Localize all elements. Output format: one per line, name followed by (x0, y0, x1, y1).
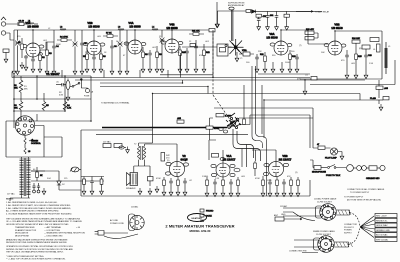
ground (169, 189, 173, 196)
resistor R47 (206, 177, 209, 190)
coil L1 (28, 21, 38, 25)
svg-text:CONNECTOR: CONNECTOR (344, 224, 357, 226)
svg-text:V4A: V4A (128, 21, 133, 25)
wire bus y93.5 (153, 94, 361, 101)
svg-text:— ANT TERMINAL: — ANT TERMINAL (44, 226, 62, 229)
transformer T1 primary (20, 158, 24, 196)
wire osc top rail (218, 10, 247, 12)
wire antenna drop (10, 30, 14, 68)
resistor R48 (222, 178, 225, 191)
capacitor C19 feedthrough (229, 7, 234, 10)
transformer T1 secondary (27, 158, 31, 196)
ground (110, 68, 114, 75)
ground arrow (285, 24, 289, 31)
resistor R22 (289, 50, 297, 66)
ground (52, 68, 56, 75)
wire RF bottom rail (12, 77, 310, 79)
resistor R61 (100, 179, 104, 195)
svg-text:1.5K: 1.5K (369, 63, 374, 65)
node 115VAC arrows (280, 205, 288, 216)
svg-text:117 VAC: 117 VAC (7, 193, 15, 196)
svg-text:100K: 100K (56, 44, 61, 46)
capacitor C4 (52, 40, 59, 68)
ground (162, 189, 166, 196)
wire V4B output to crystal (182, 46, 232, 48)
svg-text:RECEIVE POSITIONS GIVEN IN PAR: RECEIVE POSITIONS GIVEN IN PARENTHESIS W… (6, 241, 67, 244)
crystal Y1 (217, 44, 228, 56)
resistor R3 (46, 42, 53, 68)
resistor R52 (276, 177, 279, 190)
svg-text:— 6.3V SETTING: — 6.3V SETTING (44, 230, 60, 232)
microphone jack J2 (312, 166, 327, 174)
svg-text:FILAMENT SELECTOR: FILAMENT SELECTOR (15, 229, 37, 232)
svg-text:4.7K: 4.7K (67, 107, 72, 109)
ground (45, 68, 49, 75)
svg-text:1/2 6EA8: 1/2 6EA8 (331, 26, 343, 30)
resistor R43 (163, 177, 166, 189)
fuse holder oval (70, 167, 81, 172)
capacitor C25 (295, 54, 299, 66)
resistor R44 (177, 177, 180, 189)
svg-text:GROUND WITH NO SIGNAL INPUT AN: GROUND WITH NO SIGNAL INPUT AND LINE VOL… (6, 223, 69, 226)
node connecting label (289, 251, 307, 253)
capacitor C49 (282, 179, 286, 190)
ground (213, 190, 217, 197)
capacitor C2 (24, 55, 28, 64)
ground (345, 72, 349, 79)
svg-text:1/2 6BN8: 1/2 6BN8 (166, 26, 178, 30)
svg-text:RED +250V: RED +250V (376, 216, 387, 218)
capacitor C26 (305, 33, 318, 40)
ground (202, 66, 206, 73)
wire V1B plate (93, 30, 95, 41)
resistor R49 (237, 177, 240, 190)
ground (73, 68, 77, 75)
ground (85, 66, 89, 73)
wire ps box (6, 137, 62, 157)
oval pins V4B (161, 41, 183, 45)
svg-text:TO POWER SUPPLY: TO POWER SUPPLY (344, 197, 364, 199)
wire ac loop (104, 234, 138, 238)
ground (176, 189, 180, 196)
resistor R27 (377, 44, 381, 52)
capacitor C13 (185, 48, 189, 66)
svg-text:GRN 6.3VAC: GRN 6.3VAC (376, 224, 388, 227)
node junction dots (13, 75, 92, 122)
oval pins V3A (270, 43, 292, 47)
svg-text:OF +/- 20% AND WERE TAKEN WITH: OF +/- 20% AND WERE TAKEN WITH A VTVM AN… (6, 220, 82, 223)
capacitor C28 (364, 48, 372, 72)
capacitor C30 (376, 80, 389, 98)
svg-text:4. VOLTAGE READINGS TAKEN WIT: 4. VOLTAGE READINGS TAKEN WITH VTVM FROM… (6, 212, 72, 215)
svg-text:CONTROL: CONTROL (31, 143, 42, 145)
svg-text:PHONO: PHONO (206, 211, 214, 213)
tube V3B 1/2 6EA8 (331, 23, 343, 30)
ground under spider (235, 52, 239, 62)
ground (118, 68, 122, 75)
resistor R24 (352, 38, 360, 50)
value labels scatter (17, 28, 391, 209)
ground (4, 56, 8, 63)
ground arrow extra2 (280, 62, 284, 73)
tube V1B 1/2 6EA8 (87, 21, 100, 28)
resistor R21 (260, 52, 266, 66)
capacitor C29 (370, 38, 379, 42)
resistor R21a (284, 11, 289, 23)
svg-text:V1 12AX7: V1 12AX7 (46, 72, 60, 76)
wire nested corner 2 (237, 131, 254, 158)
node 117VAC lead (7, 193, 15, 196)
resistor R4 (57, 37, 72, 42)
ground (295, 66, 299, 73)
ground (263, 66, 267, 73)
ground (288, 66, 292, 73)
resistor R54 (297, 177, 300, 190)
wire grid box (14, 76, 91, 121)
svg-text:(1): (1) (295, 172, 298, 174)
node 115VAC cable label (314, 198, 337, 204)
resistor R20 (256, 14, 267, 18)
svg-text:NOTES:: NOTES: (6, 199, 14, 201)
svg-text:470K: 470K (214, 128, 219, 130)
svg-text:MICROPHONE: MICROPHONE (15, 235, 29, 237)
node fan label 5 (375, 233, 397, 237)
ground (379, 100, 383, 111)
svg-text:V2: V2 (182, 154, 186, 158)
svg-text:1 MEG: 1 MEG (202, 176, 209, 178)
oval pin labels V2 (165, 162, 188, 175)
AC socket SO1 (129, 214, 145, 231)
notes block (6, 199, 85, 261)
svg-text:** +/- AND TOP OF DEFLECTION P: ** +/- AND TOP OF DEFLECTION POWER SUPPL… (6, 258, 66, 261)
svg-text:V3A: V3A (269, 32, 274, 36)
wire v1a grid drop (242, 145, 247, 168)
connector P3 (357, 166, 369, 171)
relay RL1 knot (226, 113, 241, 129)
wire top rail (14, 29, 213, 31)
resistor R19 (246, 10, 251, 13)
resistor R41 (31, 167, 45, 181)
node fan label 1 (375, 214, 397, 218)
svg-text:R11 47K: R11 47K (192, 31, 200, 33)
svg-text:11-PIN SOCKET: 11-PIN SOCKET (317, 202, 333, 204)
svg-text:CONNECTING PIN: CONNECTING PIN (289, 251, 307, 253)
node splice text (344, 224, 357, 234)
tube V4B 1/2 6BN8 (166, 23, 178, 30)
wire V3A plate (281, 30, 308, 41)
svg-text:SPARE POWER CABLE: SPARE POWER CABLE (313, 230, 336, 233)
svg-text:SPEAKER: SPEAKER (126, 187, 136, 190)
svg-text:TO POWER SUPPLY: TO POWER SUPPLY (350, 192, 370, 194)
wire v3 coupling (308, 30, 328, 44)
trimmer C5 (73, 30, 78, 68)
svg-text:ALL OTHERS IN MMF UNLESS OTHER: ALL OTHERS IN MMF UNLESS OTHERWISE SPECI… (6, 210, 59, 213)
wire left big rect (152, 94, 154, 141)
wire audio box top (81, 129, 153, 131)
node junction dots on buses (32, 29, 335, 100)
svg-text:115VAC: 115VAC (131, 206, 139, 209)
node fan label 2 (375, 218, 397, 222)
resistor R42 (161, 153, 171, 162)
wire dashed cable merge (349, 213, 361, 245)
ground (289, 190, 293, 197)
trimmer C12 (160, 30, 165, 66)
wire V4B cathode down (180, 53, 182, 78)
tube V3A 1/2 6EA8 (266, 32, 278, 39)
wire nested corner 4 (256, 130, 267, 196)
ground (125, 68, 129, 75)
capacitor C51 (90, 179, 94, 195)
oval pins V1B (83, 42, 105, 46)
resistor R33 68K (14, 99, 23, 121)
svg-text:R7 1K: R7 1K (106, 33, 112, 35)
ground arrow (257, 24, 261, 31)
resistor R5 (83, 48, 88, 66)
ground row stage1 (20, 62, 24, 69)
logo Heathkit (188, 214, 207, 222)
capacitor C31 line filter (305, 75, 317, 80)
ground (16, 68, 20, 75)
svg-text:115 VAC: 115 VAC (103, 141, 111, 144)
wire feed lines P5 (283, 208, 321, 221)
ground (99, 66, 103, 73)
svg-text:2 METER AMATEUR TRANSCEIVER: 2 METER AMATEUR TRANSCEIVER (165, 224, 234, 229)
capacitor C40 electrolytic (32, 183, 35, 193)
svg-text:115VAC POWER CABLE: 115VAC POWER CABLE (314, 198, 337, 201)
antenna J1 (1, 17, 14, 40)
wire T1 top leads (10, 157, 30, 201)
svg-text:COAX: COAX (206, 215, 212, 218)
svg-text:WHT 115VAC: WHT 115VAC (376, 239, 389, 242)
svg-text:GND: GND (281, 214, 286, 216)
fuse F1 3A (80, 79, 93, 98)
svg-text:V3B: V3B (334, 23, 339, 27)
antenna terminal A (274, 214, 302, 221)
svg-text:MICROPHONE: MICROPHONE (312, 172, 326, 174)
resistor R11 (189, 31, 204, 36)
diode D1 (252, 10, 323, 14)
node spare cable label (313, 230, 336, 236)
svg-text:115VAC: 115VAC (280, 205, 288, 208)
svg-text:RED/BLK B–: RED/BLK B– (376, 220, 388, 222)
ground T1 (138, 186, 159, 195)
resistor R57 (148, 177, 154, 187)
wire audio couplings (210, 118, 224, 163)
resistor R50 (254, 161, 257, 176)
svg-text:PLUGS TO: PLUGS TO (344, 227, 354, 229)
svg-text:POWER: POWER (344, 230, 352, 232)
capacitor C47 (229, 179, 233, 190)
ground (42, 188, 46, 195)
capacitor C50 (209, 140, 225, 161)
capacitor C43 (169, 178, 173, 189)
ground (148, 66, 152, 73)
resistor R1 (18, 38, 23, 58)
svg-text:PILOT LAMP: PILOT LAMP (325, 157, 337, 160)
svg-text:(7): (7) (299, 45, 302, 47)
wire bus y100 (264, 100, 376, 138)
svg-text:MODEL HW-30: MODEL HW-30 (190, 229, 211, 233)
ground (185, 66, 189, 73)
wire bottom audio rail (81, 180, 310, 196)
wire socket feed (6, 114, 37, 157)
resistor R46 (216, 114, 232, 118)
ground (155, 66, 159, 73)
node TO ANT RELAY (296, 10, 330, 13)
ground (296, 190, 300, 197)
svg-text:THE VOLTAGES SHOWN ON THIS SCH: THE VOLTAGES SHOWN ON THIS SCHEMATIC ARE… (6, 217, 81, 220)
coil L6 output (384, 42, 388, 74)
svg-text:1/2 6EA8: 1/2 6EA8 (88, 24, 100, 28)
crystal Y1 (239, 49, 254, 56)
wire lower rail y134.6 (96, 134, 248, 136)
ground (236, 190, 240, 197)
wire V2 plate to T2 (139, 140, 177, 161)
resistor R10 (179, 46, 187, 66)
svg-text:HEATHKIT: HEATHKIT (192, 217, 204, 220)
svg-text:(5): (5) (167, 160, 170, 162)
ground (261, 190, 265, 197)
svg-text:PUSH TO TALK: PUSH TO TALK (326, 174, 341, 177)
wire bus y80 (75, 79, 365, 81)
resistor R36 (243, 119, 246, 124)
oval pins V2A (22, 44, 44, 55)
oval cathode label (234, 168, 240, 172)
svg-text:TO ANT RELAY: TO ANT RELAY (315, 10, 330, 13)
capacitor C24 (255, 54, 259, 66)
svg-text:2. ALL RESISTORS 1/2 WATT, 10: 2. ALL RESISTORS 1/2 WATT, 10% UNLESS OT… (6, 204, 71, 207)
wire right rail (300, 31, 382, 79)
tube V2A 1/2 6BN8 (25, 21, 39, 28)
tube V4A 1/2 6BN8 (128, 21, 141, 28)
connector P5 (316, 204, 337, 221)
ground (255, 66, 259, 73)
svg-text:— MEASURED WITH NORMAL RECEPT: — MEASURED WITH NORMAL RECEPTION (44, 232, 85, 235)
svg-text:1/2 12AX7: 1/2 12AX7 (279, 157, 292, 161)
resistor R55 47 ohm (313, 144, 331, 149)
resistor R34 4.7K (63, 99, 72, 111)
svg-text:R24 10K: R24 10K (352, 38, 360, 40)
wire bus y86.5 (100, 87, 208, 94)
svg-text:6.8K: 6.8K (59, 94, 64, 96)
svg-text:* USED WITH TUNER ADJUST SETT: * USED WITH TUNER ADJUST SETTING. (6, 255, 44, 258)
capacitor C7 (92, 55, 96, 66)
speaker SP1 (126, 173, 138, 190)
resistor R53 (290, 177, 293, 190)
wire V1B leads (252, 150, 276, 161)
wire socket leads (25, 126, 44, 139)
capacitor C11 (148, 50, 152, 66)
wire V3B plate (335, 31, 382, 41)
ground (92, 66, 96, 73)
wire osc vertical feed (232, 10, 233, 41)
svg-text:V1A: V1A (226, 154, 231, 158)
svg-text:GRN/BLK GND: GRN/BLK GND (376, 230, 390, 232)
ground (340, 153, 344, 160)
svg-text:V1B: V1B (282, 154, 287, 158)
tube V1A 1/2 12AX7 (223, 154, 236, 161)
svg-text:1/2 6BN8: 1/2 6BN8 (27, 24, 39, 28)
ground (275, 190, 279, 197)
wire V4B plate (171, 30, 173, 39)
resistor R12 (203, 44, 211, 66)
capacitor C41 electrolytic (37, 183, 40, 193)
svg-text:1. ALL RESISTANCES IN OHMS.: 1. ALL RESISTANCES IN OHMS. K=1,000. M=1… (6, 201, 58, 204)
trimmer C23 spider (228, 39, 244, 56)
wire left drop x81 (80, 130, 82, 196)
capacitor C8 (110, 40, 117, 68)
resistor R26 (362, 45, 370, 49)
resistor R6 (100, 48, 107, 66)
svg-text:THE VFO JACK ON REAR APRON PER: THE VFO JACK ON REAR APRON PERMIT EXTERN… (6, 251, 64, 254)
wire plate V2A (32, 30, 34, 58)
capacitor C45 (177, 118, 184, 123)
coil L8 (24, 148, 31, 154)
resistor R17 on rail (209, 29, 215, 32)
node fan label 3 (375, 223, 397, 227)
svg-text:3. ALL CAPACITOR VALUES LESS: 3. ALL CAPACITOR VALUES LESS THAN 1 IN M… (6, 207, 71, 210)
resistor R8 (142, 47, 149, 66)
ground (178, 66, 182, 73)
potentiometer R40 regen control (24, 138, 42, 148)
oval tags at relay (219, 128, 228, 134)
svg-text:(BOTTOM VIEW OF RECEPTACLES): (BOTTOM VIEW OF RECEPTACLES) (347, 199, 381, 202)
switch SW2 push-to-talk (326, 165, 346, 178)
svg-text:CERAMIC MIC: CERAMIC MIC (366, 177, 380, 180)
ground arrow left (216, 11, 220, 28)
switch SW1 (70, 82, 80, 87)
resistor R51 (262, 176, 265, 190)
wire V4A plate (134, 30, 136, 40)
ground (229, 190, 233, 197)
svg-text:R4 470K: R4 470K (60, 37, 68, 39)
resistor R35 (370, 97, 389, 101)
ground (221, 190, 225, 197)
node power cable note (344, 197, 381, 202)
legend symbols (200, 209, 214, 222)
ground (205, 190, 209, 197)
ground (354, 72, 358, 79)
resistor R0 input (3, 49, 9, 56)
ground (160, 66, 164, 73)
capacitor C1 (14, 21, 28, 27)
ground arrow extra1 (271, 62, 275, 73)
resistor R56 (366, 166, 380, 180)
oval pins V4A (124, 42, 146, 46)
svg-text:6AQ5: 6AQ5 (180, 157, 188, 161)
pilot lamp PL1 (325, 148, 342, 160)
wire nested corner 1 (233, 129, 261, 161)
transformer T2 output (134, 144, 146, 161)
svg-text:470K: 470K (255, 178, 260, 180)
svg-text:PL440: PL440 (370, 98, 377, 100)
resistor R18 (190, 44, 195, 47)
wire nested rail y108 (214, 108, 313, 118)
svg-text:AC LINE: AC LINE (110, 219, 118, 222)
svg-text:MEASURED VALUES ARE GIVEN AT P: MEASURED VALUES ARE GIVEN AT PINS SHOWN … (6, 238, 68, 241)
resistor R60 (82, 179, 86, 195)
svg-text:TO ANTENNA COIL TERMINAL: TO ANTENNA COIL TERMINAL (101, 102, 130, 105)
svg-text:FUSE: FUSE (84, 96, 90, 98)
wire knot to right rails (239, 115, 313, 148)
connector P6 (314, 236, 335, 253)
coil L2 (60, 27, 66, 31)
svg-text:R23 47K: R23 47K (306, 29, 314, 31)
trimmer C0 (15, 30, 20, 68)
ground (194, 66, 198, 73)
capacitor C48 (268, 179, 272, 190)
svg-text:(8): (8) (359, 48, 362, 50)
